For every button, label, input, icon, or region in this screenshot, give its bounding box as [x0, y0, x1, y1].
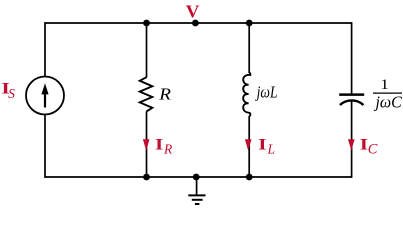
label 1/jwC fraction [373, 77, 403, 112]
svg-text:C: C [368, 142, 378, 158]
wire inductor branch upper [248, 23, 250, 73]
capacitor C top plate [339, 93, 364, 96]
inductor L coil [243, 73, 250, 117]
ground symbol [188, 177, 205, 204]
svg-text:1: 1 [380, 77, 389, 93]
wire capacitor branch lower [351, 100, 353, 178]
current source IS arrow [41, 83, 48, 107]
label IR [155, 136, 163, 154]
node dot bottom resistor [143, 174, 150, 181]
resistor R zigzag [140, 77, 153, 111]
svg-text:R: R [163, 142, 173, 157]
capacitor C bottom curved plate [340, 100, 364, 105]
label IL [258, 136, 266, 154]
wire left branch upper [44, 22, 46, 76]
current arrow IL [245, 139, 252, 150]
svg-text:L: L [267, 142, 276, 157]
node dot top resistor [143, 20, 150, 27]
wire left branch lower [44, 114, 46, 177]
svg-text:I: I [155, 136, 163, 154]
svg-text:I: I [258, 136, 266, 154]
label IC [360, 136, 368, 154]
svg-text:V: V [186, 2, 200, 22]
wire resistor branch upper [146, 23, 148, 78]
svg-text:R: R [158, 85, 171, 104]
wire resistor branch lower [146, 111, 148, 177]
label V [186, 2, 200, 22]
label jwL [255, 83, 278, 102]
label R [158, 85, 171, 104]
node dot bottom inductor [246, 174, 253, 181]
svg-text:S: S [8, 86, 15, 101]
current arrow IR [143, 139, 150, 150]
node dot top center V [192, 20, 199, 27]
wire top horizontal (node V) [45, 22, 352, 24]
label IS [1, 80, 9, 98]
node dot top inductor [246, 20, 253, 27]
current arrow IC [348, 139, 355, 150]
node dot bottom center (ground junction) [193, 174, 200, 181]
wire capacitor branch upper [351, 22, 353, 93]
current source IS circle [26, 77, 64, 115]
svg-text:jωC: jωC [374, 92, 403, 112]
wire inductor branch lower [248, 116, 250, 177]
svg-text:jωL: jωL [255, 83, 278, 102]
wire bottom horizontal [45, 176, 352, 178]
